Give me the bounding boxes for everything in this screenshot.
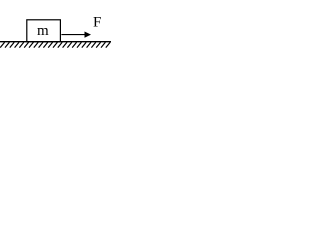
ground hatching	[0, 42, 110, 47]
background	[0, 0, 116, 56]
force arrow F (shaft)	[61, 34, 86, 36]
svg-text:m: m	[37, 23, 49, 39]
svg-text:F: F	[93, 15, 101, 31]
force arrow F (head)	[85, 32, 92, 38]
ground line	[0, 41, 111, 43]
block m (rectangle)	[27, 20, 61, 42]
